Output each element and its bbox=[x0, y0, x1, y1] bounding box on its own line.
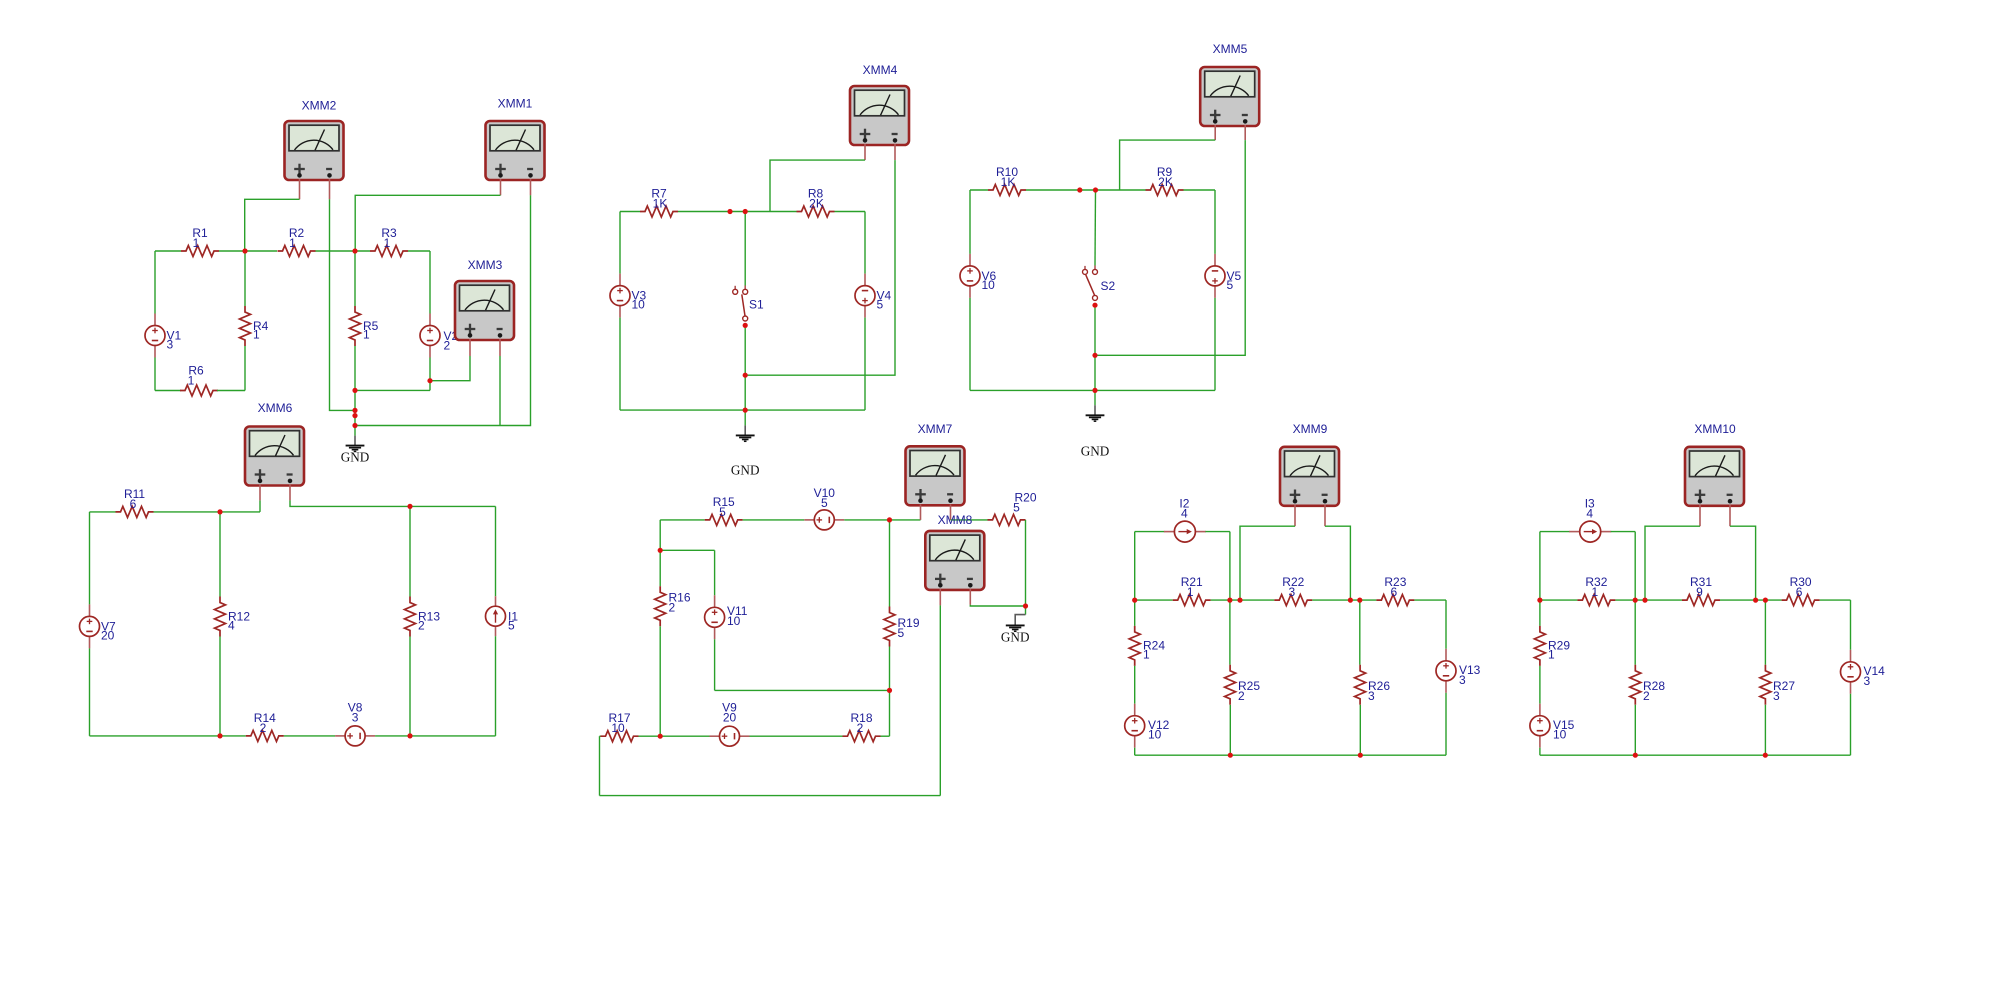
svg-text:9: 9 bbox=[1696, 585, 1703, 599]
svg-text:5: 5 bbox=[898, 626, 905, 640]
svg-text:20: 20 bbox=[723, 711, 737, 725]
svg-text:1: 1 bbox=[1143, 647, 1150, 661]
svg-text:5: 5 bbox=[508, 618, 515, 632]
svg-text:2: 2 bbox=[1238, 689, 1245, 703]
svg-text:XMM5: XMM5 bbox=[1213, 42, 1248, 56]
svg-text:2: 2 bbox=[1643, 689, 1650, 703]
svg-text:3: 3 bbox=[1864, 674, 1871, 688]
svg-text:4: 4 bbox=[228, 619, 235, 633]
svg-text:6: 6 bbox=[130, 497, 137, 511]
svg-text:10: 10 bbox=[611, 721, 625, 735]
svg-text:5: 5 bbox=[877, 298, 884, 312]
svg-text:S2: S2 bbox=[1101, 279, 1116, 293]
svg-text:5: 5 bbox=[719, 505, 726, 519]
svg-text:XMM3: XMM3 bbox=[468, 258, 503, 272]
svg-text:XMM7: XMM7 bbox=[918, 422, 953, 436]
svg-text:5: 5 bbox=[1227, 278, 1234, 292]
svg-text:1: 1 bbox=[363, 328, 370, 342]
svg-text:XMM8: XMM8 bbox=[938, 513, 973, 527]
svg-text:4: 4 bbox=[1586, 507, 1593, 521]
svg-text:XMM10: XMM10 bbox=[1694, 422, 1736, 436]
svg-text:3: 3 bbox=[167, 338, 174, 352]
svg-text:20: 20 bbox=[101, 628, 115, 642]
svg-text:1: 1 bbox=[1187, 585, 1194, 599]
svg-text:3: 3 bbox=[352, 711, 359, 725]
svg-text:1: 1 bbox=[253, 328, 260, 342]
svg-text:10: 10 bbox=[1553, 728, 1567, 742]
svg-text:1: 1 bbox=[188, 374, 195, 388]
svg-text:1: 1 bbox=[384, 236, 391, 250]
svg-text:3: 3 bbox=[1368, 689, 1375, 703]
svg-text:XMM2: XMM2 bbox=[302, 99, 337, 113]
svg-text:GND: GND bbox=[1001, 630, 1030, 645]
svg-text:3: 3 bbox=[1459, 673, 1466, 687]
svg-text:2: 2 bbox=[444, 339, 451, 353]
svg-text:5: 5 bbox=[1013, 501, 1020, 515]
svg-text:10: 10 bbox=[632, 298, 646, 312]
svg-text:GND: GND bbox=[1081, 444, 1110, 459]
svg-text:GND: GND bbox=[341, 450, 370, 465]
svg-text:2: 2 bbox=[418, 619, 425, 633]
svg-text:1: 1 bbox=[1592, 585, 1599, 599]
svg-text:XMM1: XMM1 bbox=[498, 97, 533, 111]
svg-text:6: 6 bbox=[1796, 585, 1803, 599]
svg-text:10: 10 bbox=[1148, 728, 1162, 742]
svg-text:2K: 2K bbox=[809, 197, 824, 211]
svg-text:2: 2 bbox=[669, 601, 676, 615]
svg-text:1: 1 bbox=[193, 236, 200, 250]
svg-text:GND: GND bbox=[731, 463, 760, 478]
svg-text:3: 3 bbox=[1288, 585, 1295, 599]
svg-text:2: 2 bbox=[260, 721, 267, 735]
svg-text:1: 1 bbox=[1548, 647, 1555, 661]
svg-text:1: 1 bbox=[289, 236, 296, 250]
svg-text:S1: S1 bbox=[749, 298, 764, 312]
svg-text:4: 4 bbox=[1181, 507, 1188, 521]
svg-text:5: 5 bbox=[821, 496, 828, 510]
svg-text:XMM6: XMM6 bbox=[258, 401, 293, 415]
svg-text:3: 3 bbox=[1773, 689, 1780, 703]
svg-text:10: 10 bbox=[982, 278, 996, 292]
svg-text:2: 2 bbox=[857, 721, 864, 735]
svg-text:10: 10 bbox=[727, 614, 741, 628]
svg-text:6: 6 bbox=[1391, 585, 1398, 599]
svg-text:XMM9: XMM9 bbox=[1293, 422, 1328, 436]
svg-text:XMM4: XMM4 bbox=[863, 63, 898, 77]
svg-text:1K: 1K bbox=[1001, 175, 1016, 189]
svg-text:2K: 2K bbox=[1158, 175, 1173, 189]
svg-text:1K: 1K bbox=[653, 197, 668, 211]
